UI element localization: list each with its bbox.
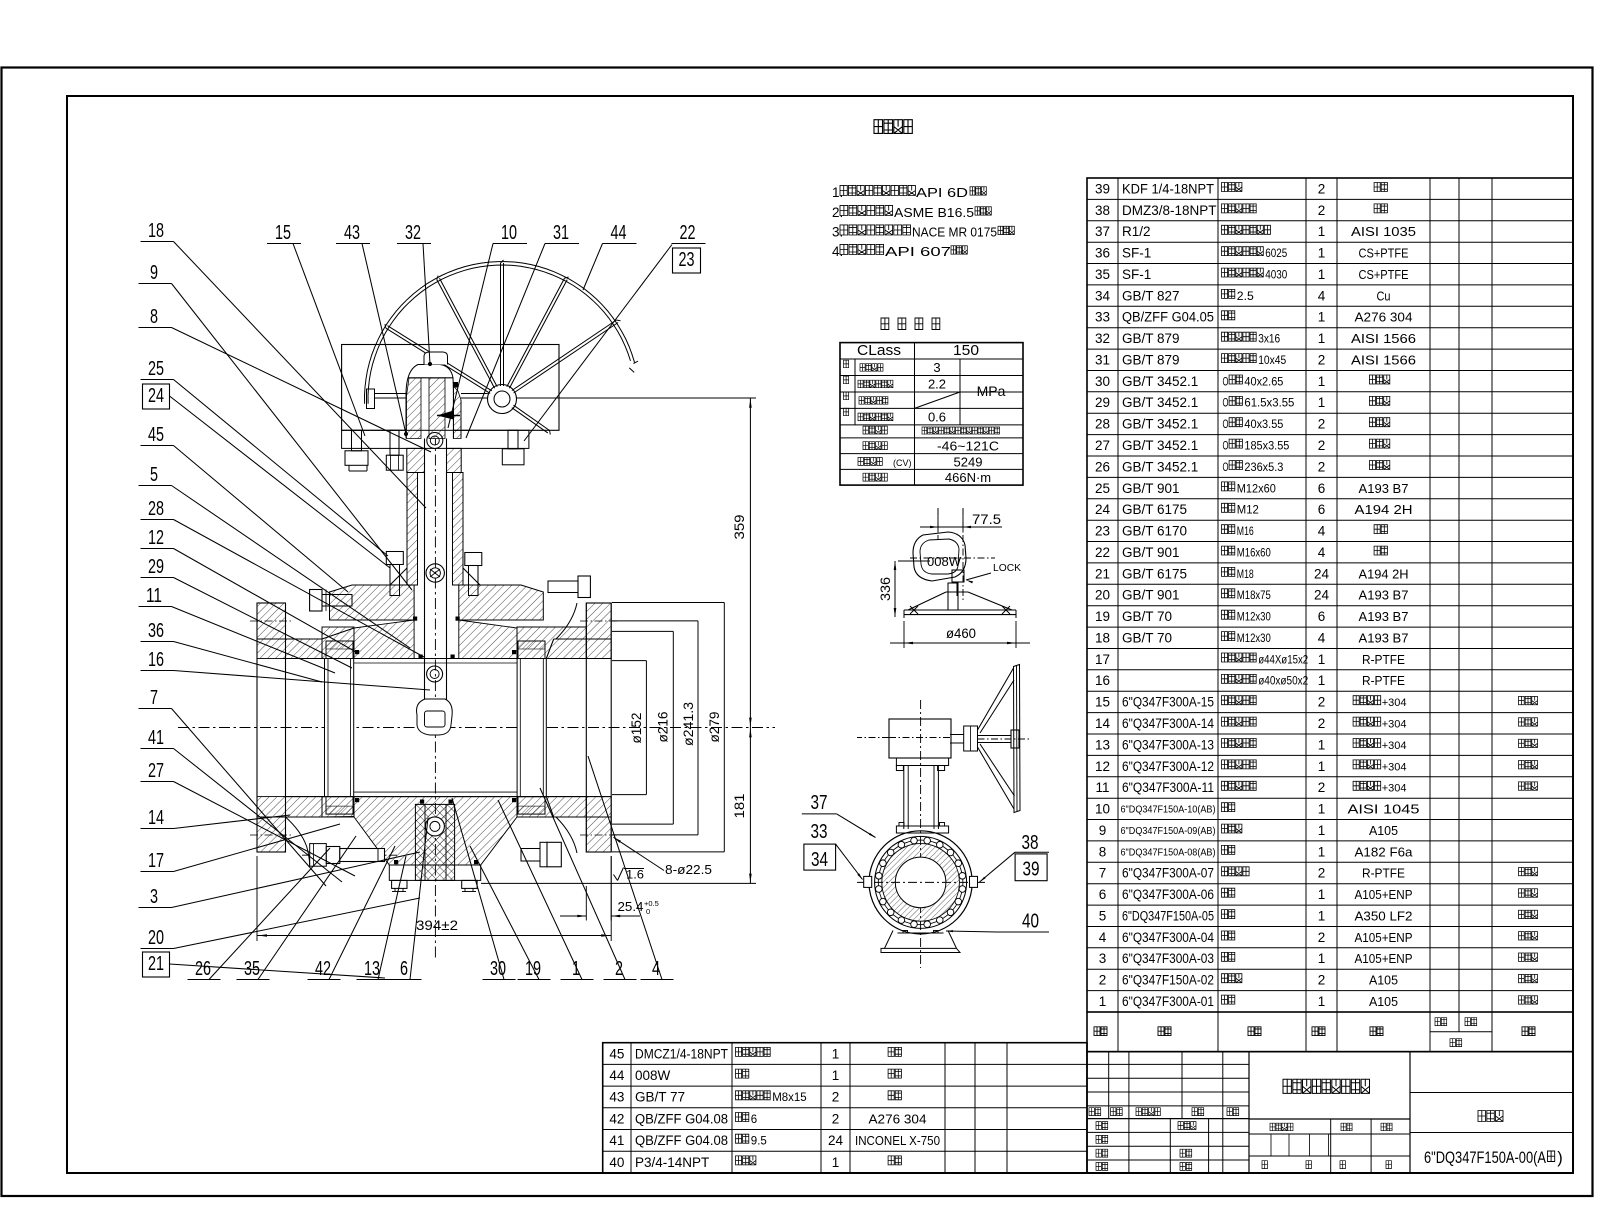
svg-text:1: 1	[1318, 673, 1326, 688]
svg-text:466N·m: 466N·m	[945, 470, 991, 485]
svg-text:3: 3	[1099, 951, 1107, 966]
svg-text:2: 2	[1318, 780, 1326, 795]
side view gearbox base plate	[896, 758, 948, 766]
svg-text:22: 22	[680, 222, 696, 244]
svg-text:14: 14	[1095, 716, 1111, 731]
svg-text:236x5.3: 236x5.3	[1244, 462, 1283, 474]
svg-text:SF-1: SF-1	[1122, 246, 1151, 261]
svg-text:M8x15: M8x15	[772, 1092, 807, 1104]
svg-text:31: 31	[1095, 353, 1110, 368]
svg-text:32: 32	[405, 222, 421, 244]
svg-text:ø241.3: ø241.3	[681, 702, 696, 746]
svg-text:6"Q347F150A-02: 6"Q347F150A-02	[1122, 973, 1214, 988]
surface finish 1.6	[614, 875, 618, 881]
svg-text:AISI 1566: AISI 1566	[1351, 353, 1416, 368]
svg-text:4030: 4030	[1265, 269, 1287, 281]
handwheel axle bar	[375, 393, 407, 395]
svg-text:39: 39	[1023, 859, 1040, 881]
svg-text:A276 304: A276 304	[869, 1111, 927, 1126]
left seat ring	[325, 659, 354, 797]
svg-text:40: 40	[1022, 911, 1039, 933]
svg-text:25: 25	[1095, 481, 1110, 496]
svg-text:INCONEL X-750: INCONEL X-750	[855, 1133, 940, 1148]
dimension 77.5	[937, 508, 939, 531]
svg-text:36: 36	[1095, 246, 1110, 261]
bottom cover wings	[389, 865, 480, 880]
svg-text:16: 16	[1095, 673, 1110, 688]
svg-text:ø460: ø460	[946, 626, 976, 641]
svg-text:O: O	[1223, 419, 1229, 431]
svg-text:M16x60: M16x60	[1237, 547, 1271, 559]
bonnet stud right	[465, 553, 482, 566]
svg-text:31: 31	[553, 222, 569, 244]
svg-text:1: 1	[1318, 374, 1326, 389]
dim 25.4	[585, 886, 587, 921]
svg-text:13: 13	[364, 958, 380, 980]
svg-text:20: 20	[148, 927, 164, 949]
svg-text:): )	[1557, 1149, 1563, 1167]
svg-text:1: 1	[1318, 737, 1326, 752]
side view top flange plate	[896, 826, 948, 833]
svg-text:181: 181	[732, 794, 747, 819]
svg-text:2: 2	[1099, 973, 1107, 988]
svg-text:2.: 2.	[832, 205, 843, 220]
svg-text:7: 7	[150, 687, 158, 709]
handwheel spokes	[386, 328, 490, 393]
svg-text:AISI 1045: AISI 1045	[1348, 802, 1420, 817]
balloon 34 boxed	[804, 844, 836, 870]
svg-text:O: O	[1223, 376, 1229, 388]
bonnet right slab	[459, 585, 544, 620]
svg-text:28: 28	[1095, 417, 1110, 432]
dim phi216	[612, 630, 673, 632]
support tower collar	[407, 448, 425, 472]
right flange plate	[586, 603, 611, 852]
svg-text:A350 LF2: A350 LF2	[1355, 909, 1413, 924]
svg-text:8: 8	[1099, 844, 1107, 859]
side view centerline vertical	[920, 700, 922, 968]
svg-text:4.: 4.	[832, 244, 843, 259]
svg-text:2: 2	[1318, 353, 1326, 368]
svg-text:6"DQ347F150A-09(AB): 6"DQ347F150A-09(AB)	[1121, 825, 1216, 837]
svg-text:17: 17	[1095, 652, 1110, 667]
svg-text:6: 6	[1318, 481, 1326, 496]
aux top view stem centerlines	[937, 508, 939, 540]
right seat ring	[517, 659, 546, 797]
bottom trunnion block	[415, 804, 454, 880]
body bottom band left	[286, 797, 323, 817]
svg-text:24: 24	[1314, 566, 1330, 581]
right column 装配图 box	[1410, 1092, 1573, 1094]
svg-text:9: 9	[150, 262, 158, 284]
svg-text:1: 1	[1318, 887, 1326, 902]
svg-text:A105: A105	[1369, 973, 1398, 988]
balloon 39 boxed	[1015, 854, 1047, 881]
svg-text:R-PTFE: R-PTFE	[1362, 866, 1405, 881]
svg-text:1: 1	[1318, 224, 1326, 239]
tower base flare	[390, 568, 407, 585]
svg-text:12: 12	[1095, 759, 1110, 774]
svg-text:45: 45	[609, 1046, 624, 1061]
svg-text:+304: +304	[1382, 740, 1407, 752]
svg-text:6: 6	[1318, 502, 1326, 517]
svg-text:1: 1	[1318, 246, 1326, 261]
gearbox mounting plate	[342, 430, 529, 448]
svg-text:QB/ZFF G04.08: QB/ZFF G04.08	[635, 1111, 728, 1126]
svg-text:1: 1	[1318, 844, 1326, 859]
svg-text:13: 13	[1095, 737, 1110, 752]
svg-text:QB/ZFF G04.08: QB/ZFF G04.08	[635, 1133, 728, 1148]
svg-text:3x16: 3x16	[1258, 334, 1280, 346]
bore bottom line	[284, 796, 612, 798]
side view main flange circle	[869, 831, 972, 934]
title block frame	[1087, 1052, 1573, 1173]
svg-text:24: 24	[1095, 502, 1111, 517]
svg-text:CS+PTFE: CS+PTFE	[1359, 267, 1409, 282]
svg-text:21: 21	[148, 953, 164, 975]
svg-text:1: 1	[832, 1046, 840, 1061]
handwheel rim double arc	[365, 262, 635, 404]
svg-text:6"Q347F300A-15: 6"Q347F300A-15	[1122, 695, 1214, 710]
svg-text:API 6D: API 6D	[916, 185, 968, 200]
svg-text:M12x30: M12x30	[1237, 633, 1271, 645]
plate bolt right nut	[508, 430, 518, 449]
svg-text:GB/T 901: GB/T 901	[1122, 481, 1180, 496]
svg-text:10: 10	[1095, 802, 1110, 817]
right horizontal bolt at bonnet	[548, 581, 578, 593]
svg-text:1.: 1.	[832, 185, 843, 200]
stem column lines	[424, 439, 426, 701]
svg-text:GB/T 6170: GB/T 6170	[1122, 524, 1187, 539]
svg-text:23: 23	[1095, 524, 1110, 539]
svg-text:1: 1	[1318, 802, 1326, 817]
svg-text:008W: 008W	[635, 1068, 671, 1083]
svg-text:6"Q347F300A-06: 6"Q347F300A-06	[1122, 887, 1214, 902]
svg-text:2: 2	[1318, 417, 1326, 432]
svg-text:24: 24	[828, 1133, 844, 1148]
svg-text:M12x60: M12x60	[1237, 483, 1276, 495]
svg-text:2: 2	[1318, 973, 1326, 988]
svg-text:8: 8	[150, 306, 158, 328]
svg-text:A193 B7: A193 B7	[1359, 481, 1409, 496]
main horizontal centerline	[178, 727, 775, 729]
right body S curve	[556, 817, 577, 853]
svg-text:43: 43	[609, 1090, 624, 1105]
svg-text:8-ø22.5: 8-ø22.5	[665, 863, 712, 877]
svg-text:29: 29	[1095, 395, 1110, 410]
svg-text:5: 5	[1099, 909, 1107, 924]
side view worm shaft	[950, 734, 964, 736]
dim phi152	[612, 660, 646, 662]
svg-text:34: 34	[1095, 288, 1111, 303]
svg-text:QB/ZFF G04.05: QB/ZFF G04.05	[1122, 310, 1214, 325]
svg-text:+304: +304	[1382, 761, 1407, 773]
svg-text:5: 5	[150, 464, 158, 486]
svg-text:23: 23	[679, 249, 695, 271]
svg-text:9: 9	[1099, 823, 1107, 838]
svg-text:0.6: 0.6	[928, 409, 946, 424]
svg-text:6"Q347F300A-07: 6"Q347F300A-07	[1122, 866, 1214, 881]
svg-text:33: 33	[811, 821, 828, 843]
svg-text:A194 2H: A194 2H	[1359, 566, 1409, 581]
svg-text:6: 6	[1318, 609, 1326, 624]
body top band right	[517, 627, 586, 659]
svg-text:M12x30: M12x30	[1237, 612, 1271, 624]
svg-text:A182 F6a: A182 F6a	[1355, 844, 1414, 859]
svg-text:30: 30	[1095, 374, 1110, 389]
svg-text:6: 6	[1099, 887, 1107, 902]
bottom cover bolt left	[392, 880, 407, 888]
aux top view base trapezoid	[904, 614, 1016, 616]
svg-text:10x45: 10x45	[1258, 355, 1286, 367]
svg-text:2: 2	[1318, 695, 1326, 710]
svg-text:1: 1	[1318, 951, 1326, 966]
svg-text:7: 7	[1099, 866, 1107, 881]
svg-text:359: 359	[732, 515, 747, 540]
svg-text:GB/T 3452.1: GB/T 3452.1	[1122, 374, 1198, 389]
stem circled pin lower	[427, 666, 443, 682]
svg-text:336: 336	[878, 577, 893, 601]
svg-text:M12: M12	[1237, 505, 1259, 517]
svg-text:A105+ENP: A105+ENP	[1355, 887, 1413, 902]
svg-text:394±2: 394±2	[416, 917, 458, 933]
body top shoulder left	[354, 620, 414, 659]
svg-text:6"DQ347F150A-10(AB): 6"DQ347F150A-10(AB)	[1121, 804, 1216, 816]
side view handwheel rim edge-on	[1014, 665, 1021, 813]
svg-text:26: 26	[195, 958, 211, 980]
svg-text:API 607: API 607	[885, 244, 951, 259]
right horizontal bolt lower	[521, 849, 540, 862]
bonnet left slab	[330, 585, 415, 620]
svg-text:33: 33	[1095, 310, 1110, 325]
svg-text:DMCZ1/4-18NPT: DMCZ1/4-18NPT	[635, 1046, 728, 1061]
svg-text:24: 24	[1314, 588, 1330, 603]
side view bottom support legs	[881, 931, 960, 953]
seal black dots	[355, 650, 359, 654]
svg-text:1: 1	[832, 1155, 840, 1170]
svg-text:38: 38	[1022, 832, 1039, 854]
svg-text:24: 24	[148, 385, 164, 407]
bottom cover bolt right	[462, 880, 477, 888]
handwheel left rim end bar	[367, 389, 375, 409]
svg-text:+304: +304	[1382, 719, 1407, 731]
plate bolt left stud	[352, 430, 362, 451]
body lower left S curve	[286, 817, 310, 866]
svg-text:ASME B16.5: ASME B16.5	[894, 205, 974, 220]
svg-text:GB/T 6175: GB/T 6175	[1122, 502, 1187, 517]
aux top view lock tab	[952, 570, 964, 582]
svg-text:18: 18	[1095, 631, 1110, 646]
svg-text:1: 1	[1099, 994, 1107, 1009]
svg-text:41: 41	[148, 727, 164, 749]
svg-text:10: 10	[501, 222, 517, 244]
revision row labels 标记 处数 更改文件号 签名 日期	[1089, 1108, 1101, 1116]
svg-text:6"DQ347F150A-08(AB): 6"DQ347F150A-08(AB)	[1121, 846, 1216, 858]
svg-text:1: 1	[1318, 310, 1326, 325]
svg-text:+304: +304	[1382, 697, 1407, 709]
svg-text:6"DQ347F150A-00(A: 6"DQ347F150A-00(A	[1424, 1149, 1546, 1167]
lower parts table grid	[603, 1043, 1087, 1173]
signature labels 设计 校核 审核 工艺	[1096, 1122, 1108, 1130]
svg-text:ø279: ø279	[707, 712, 722, 743]
svg-text:11: 11	[146, 585, 162, 607]
svg-text:2: 2	[1318, 716, 1326, 731]
svg-text:2: 2	[1318, 438, 1326, 453]
svg-text:34: 34	[811, 849, 828, 871]
svg-text:A193 B7: A193 B7	[1359, 609, 1409, 624]
svg-text:1: 1	[1318, 267, 1326, 282]
svg-text:1: 1	[832, 1068, 840, 1083]
svg-text:15: 15	[275, 222, 291, 244]
svg-text:6: 6	[400, 958, 408, 980]
svg-text:CLass: CLass	[857, 342, 901, 359]
svg-text:40x3.55: 40x3.55	[1244, 419, 1283, 431]
svg-text:36: 36	[148, 620, 164, 642]
svg-text:18: 18	[148, 220, 164, 242]
svg-text:25: 25	[148, 358, 164, 380]
stem packing dome in gearbox	[406, 365, 454, 439]
packing right wing hatched	[453, 386, 461, 439]
svg-text:R1/2: R1/2	[1122, 224, 1151, 239]
svg-text:GB/T 901: GB/T 901	[1122, 588, 1180, 603]
body bottom middle bulge	[354, 797, 517, 865]
svg-text:A194 2H: A194 2H	[1355, 502, 1413, 517]
svg-text:ø40xø50x2: ø40xø50x2	[1258, 676, 1308, 688]
svg-text:40: 40	[609, 1155, 624, 1170]
stem circled pin mid	[426, 564, 444, 582]
svg-text:O: O	[1223, 462, 1229, 474]
svg-text:NACE MR 0175: NACE MR 0175	[912, 225, 997, 240]
svg-text:6"Q347F300A-04: 6"Q347F300A-04	[1122, 930, 1214, 945]
plate bolt socket head	[390, 430, 399, 455]
svg-text:3: 3	[933, 360, 940, 375]
svg-text:150: 150	[953, 342, 979, 359]
side view handwheel spokes	[978, 668, 1014, 730]
BOM header row	[1086, 1012, 1088, 1052]
svg-text:35: 35	[1095, 267, 1110, 282]
svg-text:2.2: 2.2	[928, 377, 946, 392]
svg-text:27: 27	[1095, 438, 1110, 453]
svg-text:40x2.65: 40x2.65	[1244, 376, 1283, 388]
svg-text:1: 1	[1318, 994, 1326, 1009]
svg-text:A193 B7: A193 B7	[1359, 588, 1409, 603]
svg-text:A193 B7: A193 B7	[1359, 631, 1409, 646]
side view left port boss	[864, 876, 872, 887]
bore top line	[284, 658, 612, 660]
svg-text:A105: A105	[1369, 823, 1398, 838]
svg-text:1: 1	[1318, 395, 1326, 410]
svg-text:2: 2	[1318, 203, 1326, 218]
svg-text:35: 35	[244, 958, 260, 980]
svg-text:6025: 6025	[1265, 248, 1287, 260]
stem circled pin upper	[427, 433, 443, 449]
svg-text:GB/T 6175: GB/T 6175	[1122, 566, 1187, 581]
svg-text:3: 3	[150, 886, 158, 908]
handwheel hub	[488, 385, 517, 414]
svg-text:61.5x3.55: 61.5x3.55	[1244, 398, 1294, 410]
svg-text:29: 29	[148, 556, 164, 578]
svg-text:19: 19	[1095, 609, 1110, 624]
performance table title 性能规范	[881, 318, 889, 330]
svg-text:Cu: Cu	[1377, 288, 1391, 303]
svg-text:2: 2	[1318, 930, 1326, 945]
svg-text:185x3.55: 185x3.55	[1244, 441, 1289, 453]
svg-text:45: 45	[148, 424, 164, 446]
dim 359	[517, 397, 757, 399]
packing seal black dot	[454, 382, 459, 388]
dim phi241.3	[612, 620, 698, 622]
BOM table grid	[1087, 178, 1573, 1012]
svg-text:+304: +304	[1382, 783, 1407, 795]
svg-text:44: 44	[609, 1068, 625, 1083]
svg-text:37: 37	[811, 792, 828, 814]
svg-text:SF-1: SF-1	[1122, 267, 1151, 282]
svg-text:42: 42	[315, 958, 331, 980]
svg-text:6"Q347F300A-14: 6"Q347F300A-14	[1122, 716, 1214, 731]
svg-text:AISI 1566: AISI 1566	[1351, 331, 1416, 346]
support tower left wall	[407, 473, 418, 586]
svg-text:1: 1	[1318, 909, 1326, 924]
left flange plate	[257, 603, 286, 852]
svg-text:MPa: MPa	[977, 383, 1006, 399]
svg-text:1: 1	[1318, 331, 1326, 346]
svg-text:27: 27	[148, 760, 164, 782]
svg-text:6"Q347F300A-03: 6"Q347F300A-03	[1122, 951, 1214, 966]
svg-text:A105: A105	[1369, 994, 1398, 1009]
svg-text:2: 2	[1318, 181, 1326, 196]
svg-text:16: 16	[148, 649, 164, 671]
svg-text:A105+ENP: A105+ENP	[1355, 951, 1413, 966]
svg-text:28: 28	[148, 498, 164, 520]
packing left wing hatched	[407, 378, 422, 439]
svg-text:LOCK: LOCK	[993, 563, 1021, 574]
svg-text:0: 0	[646, 907, 650, 916]
svg-text:GB/T 879: GB/T 879	[1122, 353, 1180, 368]
stem top cap	[424, 352, 448, 365]
svg-text:GB/T 3452.1: GB/T 3452.1	[1122, 459, 1198, 474]
svg-text:R-PTFE: R-PTFE	[1362, 673, 1405, 688]
aux top view gearbox blob	[913, 532, 966, 581]
support tower right wall	[453, 473, 464, 586]
svg-text:4: 4	[1318, 288, 1326, 303]
sheet count row 共 页 第 页	[1262, 1161, 1267, 1169]
side view horizontal centerline	[857, 881, 986, 883]
svg-text:2: 2	[832, 1111, 840, 1126]
svg-text:6"Q347F300A-12: 6"Q347F300A-12	[1122, 759, 1214, 774]
svg-text:M18: M18	[1237, 569, 1254, 581]
trunnion circled bolt	[425, 817, 444, 836]
body top shoulder right	[459, 620, 517, 659]
side view right port boss	[970, 876, 978, 887]
svg-text:6"DQ347F150A-05: 6"DQ347F150A-05	[1122, 909, 1214, 924]
right flange bolt centerlines	[580, 620, 618, 622]
svg-text:32: 32	[1095, 331, 1110, 346]
svg-text:2: 2	[1318, 459, 1326, 474]
side view bolt circle with holes	[878, 840, 963, 925]
svg-text:12: 12	[148, 527, 164, 549]
svg-text:P3/4-14NPT: P3/4-14NPT	[635, 1155, 709, 1170]
svg-text:2: 2	[615, 958, 623, 980]
drain valve assembly lower left	[310, 844, 327, 867]
svg-text:AISI 1035: AISI 1035	[1351, 224, 1416, 239]
svg-text:ø44Xø15x2: ø44Xø15x2	[1258, 654, 1308, 666]
svg-text:20: 20	[1095, 588, 1110, 603]
packing stem core hatched	[429, 378, 445, 439]
svg-text:GB/T 879: GB/T 879	[1122, 331, 1180, 346]
svg-text:42: 42	[609, 1111, 624, 1126]
svg-text:6: 6	[751, 1114, 757, 1126]
svg-text:M16: M16	[1237, 526, 1254, 538]
